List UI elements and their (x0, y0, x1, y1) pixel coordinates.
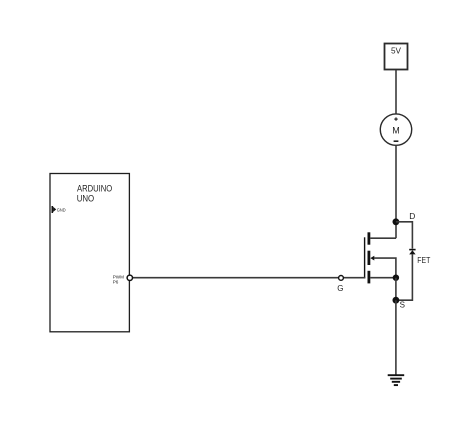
node D junction (393, 218, 400, 225)
svg-text:S: S (400, 301, 405, 310)
wire Arduino PWM pin to gate (133, 277, 365, 279)
wire 5V to motor (395, 70, 397, 114)
svg-text:D: D (409, 211, 415, 221)
svg-text:M: M (392, 125, 400, 135)
transistor Q1 body contact bar (368, 251, 371, 265)
pin PWM P6 on Arduino (113, 275, 133, 285)
wire drain node to body diode branch (upper) (396, 222, 413, 249)
wire body diode branch (lower) to S node (396, 254, 413, 300)
Arduino UNO module box (50, 174, 129, 332)
svg-text:FET: FET (417, 256, 430, 265)
wire S to ground (395, 300, 397, 375)
node G bendpoint (339, 276, 344, 281)
body diode of FET (409, 250, 415, 255)
wire source junction to S node (395, 278, 397, 301)
wire source lead (370, 277, 396, 279)
ground symbol (388, 375, 405, 385)
wire motor to drain lead corner (395, 145, 397, 238)
pin GND on Arduino (52, 206, 67, 213)
motor M (380, 114, 411, 145)
svg-text:G: G (337, 284, 343, 293)
node source/body junction (393, 275, 399, 281)
transistor Q1 drain contact bar (368, 232, 371, 244)
svg-text:P6: P6 (113, 280, 119, 285)
5V supply box (385, 44, 408, 70)
svg-text:5V: 5V (391, 47, 402, 56)
transistor Q1 N-MOSFET gate line (364, 237, 366, 278)
transistor Q1 body arrow (370, 256, 374, 261)
svg-text:GND: GND (57, 207, 66, 212)
node S junction (393, 297, 400, 304)
transistor Q1 source contact bar (368, 271, 371, 284)
wire drain lead (370, 237, 396, 239)
svg-text:UNO: UNO (77, 192, 95, 203)
wire body lead (374, 258, 396, 278)
